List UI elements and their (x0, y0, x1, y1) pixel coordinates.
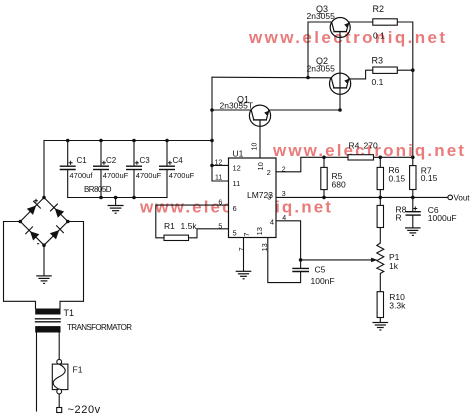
bridge diode top-right D2 (50, 204, 64, 218)
bridge diode bottom-right D4 (50, 225, 64, 239)
resistor R10 box (377, 292, 383, 318)
svg-text:R2: R2 (373, 4, 385, 14)
svg-text:6: 6 (233, 204, 237, 213)
junction bridge left vertex (19, 220, 23, 224)
svg-text:F1: F1 (73, 365, 83, 375)
label bridge minus (37, 243, 39, 245)
wire V+ to pin 12 and pin 11 (212, 141, 229, 166)
capacitor C4 plates (159, 166, 175, 169)
svg-text:2n3055T: 2n3055T (220, 101, 254, 111)
bridge diode bottom-left D3 (25, 227, 39, 241)
wire Q3 base drop (308, 22, 331, 78)
resistor R8 box (377, 205, 383, 227)
svg-text:11: 11 (215, 175, 222, 182)
svg-text:2n3055: 2n3055 (307, 11, 336, 21)
svg-text:4: 4 (270, 218, 274, 227)
mains terminal square (57, 408, 62, 413)
resistor R2 box (373, 19, 398, 25)
junction C3 bottom (132, 196, 136, 200)
wire R7 stems (412, 157, 414, 165)
svg-text:C4: C4 (173, 156, 184, 165)
op IC U1 LM723 body (229, 158, 277, 238)
bridge rectifier diamond (20, 198, 68, 246)
svg-text:1k: 1k (389, 261, 399, 271)
wire bridge right AC lead (60, 222, 84, 309)
svg-text:5: 5 (233, 228, 237, 237)
capacitor C5 plates (292, 268, 309, 271)
junction bridge right vertex (66, 220, 70, 224)
Vout terminal circle (448, 195, 453, 200)
capacitor C2 plates (93, 166, 109, 169)
svg-text:1.5k: 1.5k (181, 221, 198, 231)
junction Q3 base tap (306, 76, 310, 80)
svg-text:R1: R1 (164, 221, 175, 231)
transformer T1 windings (35, 309, 60, 315)
junction R7 bottom / C6 (411, 196, 415, 200)
wire pin 2 up to reg rail (276, 157, 348, 172)
svg-text:12: 12 (215, 159, 223, 166)
bridge diode top-left D1 (27, 201, 41, 215)
ground under bridge (36, 276, 52, 284)
svg-text:Vout: Vout (454, 194, 471, 203)
resistor R3 box (373, 67, 398, 73)
svg-text:10: 10 (256, 162, 265, 170)
wire Q1 base (212, 109, 251, 111)
wire bridge left AC lead (4, 222, 36, 309)
potentiometer P1 wiper arrow (371, 258, 377, 263)
wire C6 stems (412, 197, 414, 211)
capacitor C3 plates (126, 166, 142, 169)
wire V+ vertical bus x212 (211, 77, 213, 140)
wire output rail pin3 to Vout (276, 196, 448, 198)
wire pin 7 to ground (243, 238, 245, 272)
svg-text:C2: C2 (106, 156, 117, 165)
svg-text:4700uF: 4700uF (169, 171, 195, 180)
wire bridge minus to ground (43, 245, 45, 275)
junction pin 4 / C5 / wiper node (299, 258, 303, 262)
wire R2 right to right bus (397, 22, 413, 157)
svg-text:BR805D: BR805D (84, 185, 112, 194)
svg-text:3: 3 (282, 191, 286, 198)
svg-text:2: 2 (267, 168, 271, 177)
wire Q3 emitter to R2 (350, 21, 373, 23)
junction ground stem caps (114, 196, 118, 200)
svg-text:2n3055: 2n3055 (307, 64, 336, 74)
svg-text:2: 2 (282, 166, 286, 173)
resistor R1 box (164, 235, 189, 240)
svg-text:3: 3 (267, 192, 271, 201)
svg-text:4: 4 (282, 215, 286, 222)
wire Q1 collector to pin10 (259, 126, 261, 158)
wire transformer left primary lead (36, 333, 38, 412)
svg-text:4700uF: 4700uF (103, 171, 129, 180)
wire pin 6 to R1 (156, 205, 229, 238)
transistor Q2 2n3055 (330, 73, 351, 94)
wire R5 stem top (323, 157, 325, 167)
capacitor C1 plates (60, 166, 76, 169)
junction R5 top (322, 156, 326, 160)
wire R3 right to right bus (397, 69, 413, 71)
potentiometer P1 zigzag (377, 243, 384, 274)
ground under R10 (373, 323, 389, 331)
svg-text:11: 11 (233, 179, 241, 188)
svg-text:C1: C1 (77, 156, 88, 165)
svg-text:270: 270 (364, 141, 378, 151)
svg-text:0.1: 0.1 (372, 77, 384, 87)
junction C4 top (165, 139, 169, 143)
svg-text:100nF: 100nF (311, 276, 335, 286)
label bridge plus (34, 199, 38, 203)
wire wiper node to P1 arrow (301, 259, 375, 261)
wire caps top drops C1-C4 (67, 141, 69, 166)
svg-text:5: 5 (218, 224, 222, 231)
junction R3 right (411, 68, 415, 72)
svg-text:12: 12 (233, 163, 241, 172)
transistor Q3 2n3055 (330, 18, 350, 38)
svg-text:C5: C5 (315, 264, 326, 274)
svg-text:TRANSFORMATOR: TRANSFORMATOR (67, 323, 132, 332)
wire R10 bottom to ground (379, 318, 381, 323)
svg-text:13: 13 (262, 243, 269, 251)
svg-text:R3: R3 (372, 56, 384, 66)
junction R6 top (379, 156, 383, 160)
junction R6 bottom (379, 196, 383, 200)
capacitor C6 plates (406, 212, 421, 215)
wire Q2 emitter to R3 (350, 70, 373, 79)
resistor R5 box (321, 167, 327, 189)
svg-text:R: R (396, 213, 402, 223)
wire P1 bottom to R10 (379, 274, 381, 292)
junction bridge minus vertex (42, 243, 46, 247)
svg-text:3.3k: 3.3k (389, 300, 406, 310)
svg-text:4700uF: 4700uF (136, 171, 162, 180)
junction C2 top (99, 139, 103, 143)
svg-text:6: 6 (218, 200, 222, 207)
transistor Q1 2n3055T (249, 105, 270, 126)
wire collector bus Q3/Q2 down to Q1 emitter node (339, 32, 341, 111)
resistor R4 box (348, 155, 374, 160)
junction C1 top (66, 139, 70, 143)
junction bridge plus vertex (42, 196, 46, 200)
wire caps bottom rail (68, 197, 167, 199)
svg-text:7: 7 (242, 232, 251, 236)
wire caps bottom drops C1-C4 (67, 170, 69, 198)
svg-text:0.15: 0.15 (421, 173, 438, 183)
wire R6 stems (379, 157, 381, 167)
junction pin 12 tap (210, 164, 214, 168)
ground under C6 (405, 228, 421, 236)
wire pin 4 down to wiper node (276, 221, 301, 260)
svg-text:13: 13 (255, 227, 264, 235)
svg-text:10: 10 (251, 143, 258, 151)
wire top rail from bridge plus to V+ (44, 141, 212, 198)
svg-text:4700uf: 4700uf (70, 171, 94, 180)
svg-text:7: 7 (239, 247, 246, 251)
wire R1 right to pin 5 (189, 229, 229, 238)
junction R5 bottom (322, 196, 326, 200)
svg-text:R4: R4 (349, 141, 360, 151)
svg-text:680: 680 (332, 180, 346, 190)
wire reg rail R4 right to R7 top (374, 156, 413, 158)
fuse F1 (52, 359, 68, 394)
wire Q1 emitter to collector bus (269, 109, 340, 111)
junction C2 bottom (99, 196, 103, 200)
svg-text:C3: C3 (140, 156, 151, 165)
wire base line Q2 (212, 76, 332, 79)
ground under caps (108, 206, 124, 214)
junction V+ rail corner (210, 139, 214, 143)
junction R7 top (411, 156, 415, 160)
wire R8 stems (379, 197, 381, 205)
svg-text:www.electroniq.net: www.electroniq.net (248, 28, 447, 47)
svg-text:T1: T1 (64, 308, 75, 318)
ground at pin 7 (236, 271, 252, 279)
wire caps ground stem (115, 198, 117, 206)
wire fuse to mains terminal (58, 394, 60, 408)
junction Q1 emitter / collector bus (338, 108, 342, 112)
junction C3 top (132, 139, 136, 143)
svg-text:0.15: 0.15 (389, 174, 406, 184)
svg-text:U1: U1 (233, 148, 244, 158)
svg-text:~220v: ~220v (68, 404, 101, 416)
wire R5 stem bottom (323, 190, 325, 198)
wire C5 bottom to pin 13 (268, 238, 301, 283)
wire transformer right primary lead to fuse (58, 333, 60, 360)
svg-text:1000uF: 1000uF (428, 213, 457, 223)
resistor R7 box (410, 166, 416, 190)
wire wiper node to C5 top (300, 260, 302, 268)
label C6 plus (413, 207, 417, 211)
resistor R6 box (377, 167, 383, 189)
junction Q1 base (210, 108, 214, 112)
svg-text:0.1: 0.1 (373, 31, 385, 41)
